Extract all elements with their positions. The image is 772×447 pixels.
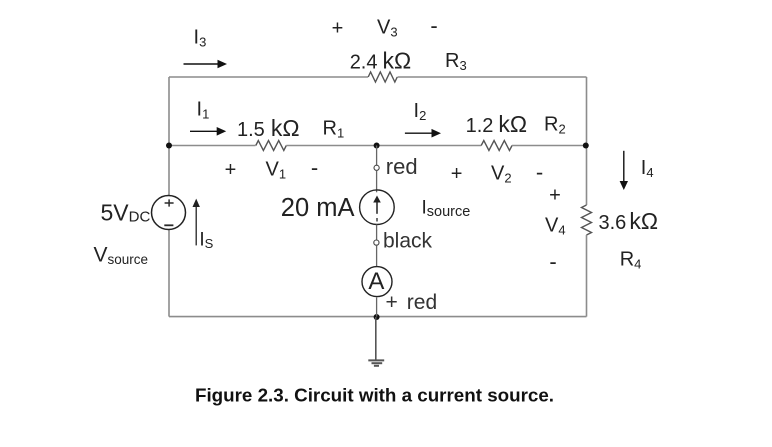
label Isource — [422, 198, 471, 221]
label R4 — [620, 249, 642, 272]
caption figure 2.3 — [195, 385, 554, 406]
svg-text:+: + — [451, 163, 463, 185]
label V3 minus — [430, 13, 437, 38]
current I3 arrow — [184, 60, 228, 69]
wire middle (center segment) — [286, 145, 481, 147]
label V1 — [266, 159, 287, 182]
resistor R4 zigzag — [582, 205, 592, 235]
svg-text:+red: +red — [386, 291, 438, 314]
wire current source to black terminal — [376, 225, 378, 241]
label R1 — [323, 118, 345, 141]
svg-text:20 mA: 20 mA — [281, 194, 355, 222]
svg-text:-: - — [536, 160, 543, 185]
label Vsource — [94, 243, 149, 267]
svg-text:-: - — [549, 249, 556, 274]
svg-text:red: red — [386, 154, 418, 179]
label 2.4k ohm value R3 — [350, 48, 412, 74]
svg-text:+: + — [332, 17, 344, 39]
label plus red ammeter — [386, 291, 438, 314]
current I2 arrow — [405, 129, 441, 138]
label I3 — [194, 27, 207, 50]
label V4 — [545, 215, 566, 238]
label I2 — [414, 100, 427, 123]
current IS arrow — [193, 199, 200, 246]
wire ammeter to bottom wire — [376, 297, 378, 316]
label 20 mA value — [281, 194, 355, 222]
ground — [368, 317, 384, 366]
wire left vertical (top part) — [168, 77, 170, 196]
label 1.2k ohm value R2 — [466, 111, 528, 137]
resistor R3 zigzag — [368, 72, 397, 82]
label V2 minus — [536, 160, 543, 185]
label V2 — [491, 163, 512, 186]
wire red terminal to current source — [376, 170, 378, 192]
wire top (right segment) — [398, 76, 587, 78]
wire bottom — [169, 316, 587, 318]
node center junction — [374, 143, 380, 149]
node right junction — [583, 143, 589, 149]
node bottom junction — [374, 314, 380, 320]
label R2 — [544, 114, 566, 137]
svg-text:+: + — [549, 185, 561, 207]
label V3 plus — [332, 17, 344, 39]
wire black terminal to ammeter — [376, 245, 378, 266]
node black terminal — [374, 240, 379, 245]
svg-text:-: - — [430, 13, 437, 38]
label black terminal — [383, 230, 433, 253]
label 1.5k ohm value R1 — [237, 115, 300, 141]
svg-text:black: black — [383, 230, 433, 253]
label R3 — [445, 50, 467, 73]
current I1 arrow — [190, 127, 226, 136]
current I4 arrow — [620, 151, 628, 190]
label V4 minus — [549, 249, 556, 274]
ammeter A — [362, 267, 392, 297]
svg-text:Figure 2.3. Circuit with a cur: Figure 2.3. Circuit with a current sourc… — [195, 385, 554, 406]
label V4 plus — [549, 185, 561, 207]
wire top (left segment) — [169, 76, 368, 78]
wire middle (right segment) — [512, 145, 587, 147]
node red terminal — [374, 165, 379, 170]
wire left vertical (bottom part) — [168, 229, 170, 316]
current source I1 circle — [360, 190, 395, 225]
node left junction — [166, 143, 172, 149]
wire right vertical (bottom part) — [586, 235, 588, 317]
label red terminal — [386, 154, 418, 179]
label I1 — [197, 99, 210, 122]
label I4 — [641, 157, 654, 180]
svg-text:A: A — [368, 268, 384, 295]
label V3 — [377, 17, 398, 40]
resistor R2 zigzag — [481, 141, 512, 151]
label V1 plus — [225, 159, 237, 181]
wire center branch: node to red terminal — [376, 146, 378, 166]
label V2 plus — [451, 163, 463, 185]
voltage source V1 circle — [152, 196, 186, 230]
label 3.6k ohm value R4 — [599, 208, 659, 234]
svg-text:-: - — [311, 155, 318, 180]
label V1 minus — [311, 155, 318, 180]
svg-text:+: + — [225, 159, 237, 181]
label IS — [199, 229, 213, 251]
resistor R1 zigzag — [256, 141, 287, 151]
wire right vertical (top part) — [586, 77, 588, 205]
label 5VDC — [101, 200, 151, 226]
wire middle (left segment) — [169, 145, 256, 147]
